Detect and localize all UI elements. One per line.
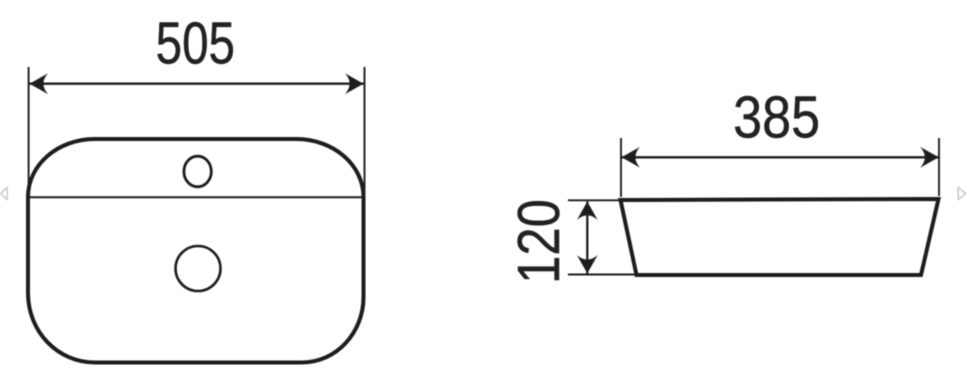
extension line right of 385 <box>938 138 940 196</box>
dimension line 120 <box>586 202 588 274</box>
faucet hole <box>184 156 211 187</box>
svg-text:385: 385 <box>733 83 820 150</box>
carousel arrow right <box>958 187 965 199</box>
arrowhead 120 down <box>577 255 598 274</box>
extension line left of 385 <box>620 138 622 197</box>
arrowhead 385 left <box>622 147 641 168</box>
carousel arrow left <box>1 187 7 199</box>
drain hole <box>176 246 221 291</box>
svg-text:505: 505 <box>156 10 235 76</box>
dimension line 385 <box>622 156 939 158</box>
basin rim line <box>30 196 362 198</box>
extension line top of 120 <box>568 199 619 201</box>
svg-text:120: 120 <box>505 199 572 284</box>
arrowhead 505 left <box>30 73 49 94</box>
dimension line 505 <box>30 83 364 85</box>
side-view trapezoid <box>621 199 939 275</box>
arrowhead 385 right <box>920 147 939 168</box>
basin top-view outline <box>28 139 364 363</box>
extension line bottom of 120 <box>568 274 637 276</box>
arrowhead 120 up <box>577 202 598 221</box>
extension line left of 505 <box>28 67 30 195</box>
arrowhead 505 right <box>345 73 364 94</box>
extension line right of 505 <box>364 67 366 195</box>
